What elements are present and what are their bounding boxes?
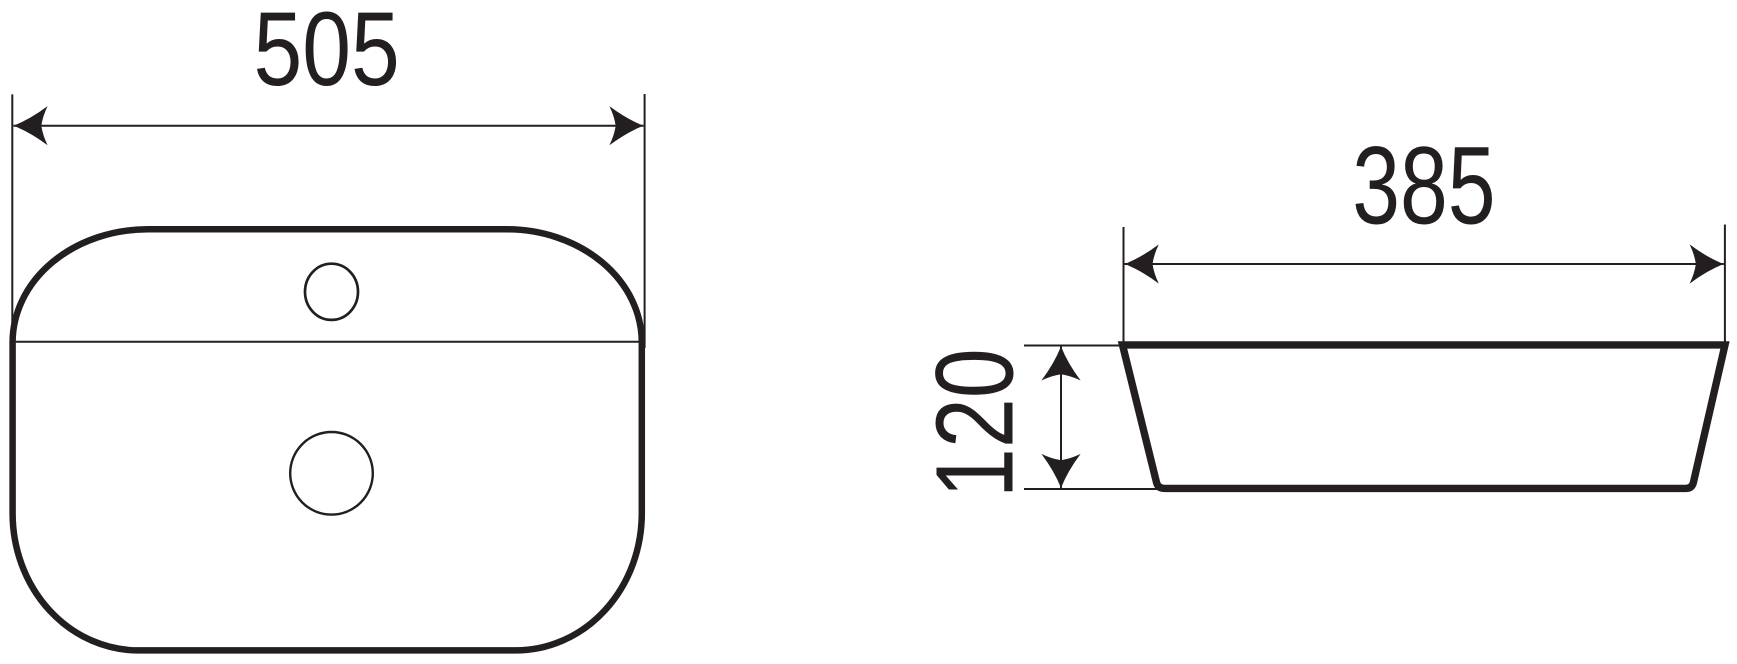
dimension label 385 — [1352, 124, 1495, 247]
arrowhead 505 right — [609, 106, 643, 145]
basin outline (top view) — [13, 229, 642, 650]
dimension label 505 — [253, 0, 399, 108]
dimension line 120 — [1060, 346, 1062, 488]
arrowhead 385 right — [1690, 244, 1724, 283]
arrowhead 505 left — [14, 106, 48, 145]
dimension line 505 — [14, 125, 644, 127]
arrowhead 385 left — [1125, 244, 1159, 283]
svg-text:505: 505 — [253, 0, 399, 108]
dimension line 385 — [1125, 263, 1724, 265]
extension line left (505) — [11, 94, 13, 346]
extension line right (385) — [1724, 225, 1726, 345]
faucet hole circle — [305, 264, 358, 320]
arrowhead 120 down — [1041, 454, 1080, 488]
drain hole circle — [290, 432, 373, 515]
basin side profile (trapezoid) — [1123, 345, 1726, 489]
arrowhead 120 up — [1041, 346, 1080, 380]
extension line left (385) — [1123, 227, 1125, 345]
basin rim line — [16, 341, 639, 343]
dimension label 120 (rotated) — [914, 348, 1037, 498]
extension line right (505) — [644, 94, 646, 348]
extension line top (120) — [1024, 345, 1122, 347]
svg-text:385: 385 — [1352, 124, 1495, 247]
svg-text:120: 120 — [914, 348, 1037, 498]
extension line bottom (120) — [1024, 488, 1158, 490]
